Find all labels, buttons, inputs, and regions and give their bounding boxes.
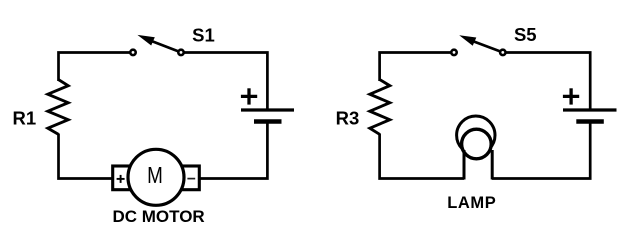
svg-text:R1: R1 — [12, 107, 36, 128]
svg-text:DC MOTOR: DC MOTOR — [112, 207, 204, 226]
svg-text:S5: S5 — [514, 24, 537, 45]
svg-text:S1: S1 — [192, 24, 215, 45]
svg-text:LAMP: LAMP — [447, 194, 496, 212]
svg-text:R3: R3 — [336, 108, 360, 129]
svg-text:M: M — [147, 163, 163, 188]
